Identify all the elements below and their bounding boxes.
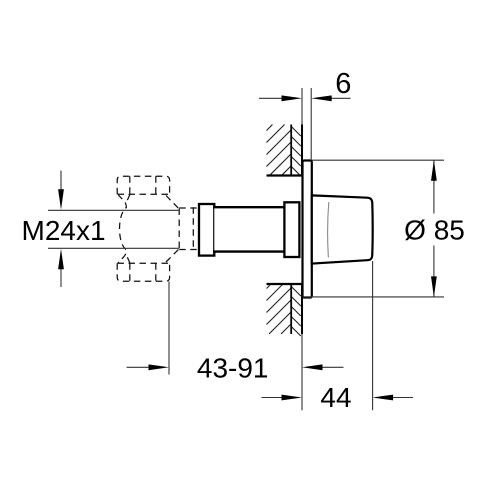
svg-text:44: 44 — [320, 382, 351, 413]
sleeve collar (at wall) — [284, 202, 299, 257]
wall lower hatch strip — [292, 287, 301, 336]
extension line flange front — [310, 88, 312, 160]
dimension Ø85 (flange diameter) — [303, 160, 444, 297]
M24x1 thread extension lines — [48, 209, 179, 211]
wall upper hatch strip — [292, 127, 301, 175]
thread section horizontals — [179, 207, 198, 209]
wall upper bottom edge — [267, 174, 303, 176]
svg-text:Ø 85: Ø 85 — [404, 215, 465, 246]
wall upper plaster line — [290, 125, 292, 176]
dim line below — [60, 267, 62, 288]
dim line lower seg — [433, 246, 435, 297]
arrow up M24 — [58, 249, 64, 269]
svg-text:43-91: 43-91 — [197, 353, 269, 384]
escutcheon flange — [303, 161, 312, 298]
svg-text:6: 6 — [335, 68, 351, 100]
bottom union nut — [117, 263, 169, 281]
dim line left tail — [127, 366, 151, 368]
arrow left of 6 — [282, 95, 303, 101]
arrow down Ø85 — [431, 276, 437, 297]
extension line wall face lower — [301, 334, 303, 410]
dimension 43-91 (burial depth) — [127, 281, 344, 374]
body neck inner dash top — [127, 194, 130, 201]
dim line right tail — [391, 397, 413, 399]
wall upper surface line — [301, 125, 303, 177]
thread section verticals — [178, 209, 180, 250]
arrow left 43-91 — [149, 364, 170, 370]
wall lower plaster line — [290, 285, 292, 335]
body neck inner dash bottom — [127, 256, 130, 263]
dim line left tail — [262, 397, 285, 399]
arrow up Ø85 — [431, 160, 437, 181]
extension line knob front — [372, 261, 374, 410]
arrow down M24 — [58, 189, 64, 210]
arrow right of 6 — [311, 95, 332, 101]
wall lower surface line — [301, 284, 303, 334]
shoulder slant bottom — [166, 249, 179, 262]
svg-text:M24x1: M24x1 — [22, 215, 106, 246]
wall lower hatch main — [267, 285, 291, 335]
stem collar (left ring) — [199, 204, 214, 256]
dim line upper seg — [433, 160, 435, 213]
dimension 44 (protrusion) — [262, 261, 414, 410]
wall upper hatch main — [267, 125, 291, 176]
stem tube — [214, 207, 284, 252]
arrow left 44 — [282, 395, 303, 401]
dimension M24x1 (thread) — [60, 171, 62, 288]
handle knob — [312, 195, 373, 263]
dim line above — [60, 171, 62, 193]
dimension 6 (flange thickness) — [259, 88, 351, 160]
extension line flange bottom — [303, 296, 444, 298]
arrow right 44 — [373, 395, 394, 401]
concealed valve body (dashed) — [117, 176, 198, 281]
extension line valve end — [168, 281, 170, 374]
knob contour line — [328, 202, 329, 258]
dim line left tail — [259, 97, 284, 99]
dim line right tail — [329, 97, 351, 99]
dim line right tail — [320, 366, 344, 368]
body left silhouette arc — [118, 194, 127, 263]
top union nut — [117, 176, 169, 194]
extension line wall face — [301, 88, 303, 125]
wall lower top edge — [267, 283, 303, 285]
arrow right 43-91 — [302, 364, 323, 370]
extension line flange top — [312, 159, 444, 161]
shoulder slant top — [166, 196, 179, 210]
